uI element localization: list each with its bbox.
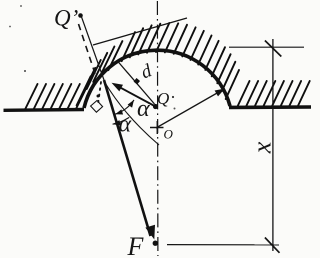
svg-text:F: F — [127, 232, 145, 258]
top dimension reference line — [229, 46, 304, 48]
svg-text:x: x — [248, 141, 277, 154]
radius arrow Q to P — [114, 84, 156, 106]
svg-text:Q: Q — [157, 89, 169, 108]
speck mid-left — [24, 70, 26, 72]
svg-text:O: O — [164, 127, 174, 142]
reflected ray P to F (thick, arrow) — [104, 80, 151, 236]
ray Q' to P — [81, 16, 104, 81]
top dimension tick — [265, 41, 281, 57]
svg-text:α: α — [137, 96, 150, 122]
svg-text:Q’: Q’ — [54, 6, 78, 31]
vertical dimension line x — [272, 39, 274, 251]
right-angle diamond mark — [91, 101, 103, 113]
long hatch stroke over apex — [93, 18, 187, 45]
svg-text:d: d — [138, 60, 155, 83]
speck left — [9, 26, 11, 28]
dome arc — [84, 50, 230, 108]
centre cross O — [150, 127, 164, 129]
axis centerline (dash-dot) — [156, 1, 159, 256]
dashed virtual ray from Q' — [79, 24, 98, 81]
radius arrow from O to arc — [156, 91, 222, 129]
svg-text:α: α — [119, 112, 132, 138]
angle arc alpha 2 — [113, 117, 130, 124]
radius d line from arc to Q — [118, 61, 155, 104]
point Q — [153, 104, 158, 109]
bisector line P to O region — [104, 81, 159, 145]
right ground line — [229, 105, 311, 109]
small dot near P — [97, 95, 100, 98]
left ground line — [4, 108, 85, 112]
speck near Q — [172, 96, 174, 98]
speck top-left — [20, 5, 22, 7]
angle arc alpha 1 — [115, 100, 134, 114]
dotted normal from P — [98, 82, 101, 102]
bottom dimension tick — [265, 238, 280, 253]
hatching — [25, 84, 38, 110]
tick square on d line — [134, 78, 140, 84]
bottom dimension reference line — [167, 244, 279, 246]
point F — [153, 241, 158, 246]
point Q' — [78, 13, 83, 18]
